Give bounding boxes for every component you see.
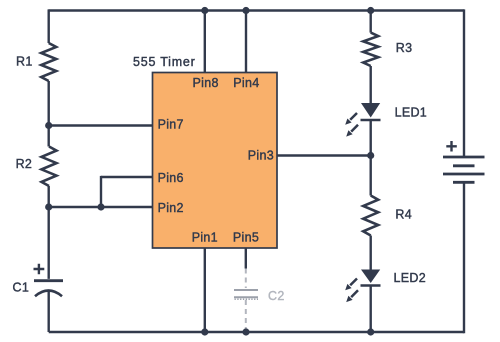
capacitor C1 curved plate bbox=[35, 291, 62, 297]
LED2 arrow 1 bbox=[345, 279, 357, 291]
battery plate short 1 bbox=[453, 164, 475, 167]
wire Pin7 bbox=[49, 124, 153, 126]
resistor R3 bbox=[363, 33, 378, 66]
wire top rail bbox=[49, 9, 465, 11]
capacitor C1 plus sign bbox=[34, 264, 45, 275]
node junction C2/bottom rail bbox=[242, 328, 249, 335]
svg-text:Pin5: Pin5 bbox=[233, 230, 259, 244]
svg-text:R3: R3 bbox=[396, 41, 413, 55]
LED2 cathode bar bbox=[361, 284, 381, 287]
wire bottom rail bbox=[49, 331, 464, 333]
svg-text:LED2: LED2 bbox=[394, 271, 426, 285]
capacitor C2 dashed lower lead bbox=[245, 300, 247, 330]
resistor R1 bbox=[41, 43, 56, 81]
wire R4 to LED2 bbox=[370, 236, 372, 270]
svg-text:Pin6: Pin6 bbox=[158, 171, 184, 185]
wire Pin2 bbox=[49, 206, 153, 208]
svg-text:C2: C2 bbox=[268, 289, 285, 303]
LED1 triangle bbox=[361, 103, 380, 118]
node junction Pin1/bottom rail bbox=[201, 328, 208, 335]
wire left rail upper (top corner to R1) bbox=[48, 9, 50, 43]
svg-text:LED1: LED1 bbox=[395, 106, 427, 120]
node junction Pin2/left rail bbox=[45, 203, 52, 210]
capacitor C2 top plate bbox=[234, 289, 258, 291]
svg-text:Pin8: Pin8 bbox=[192, 76, 218, 90]
wire top rail to R3 bbox=[370, 11, 372, 33]
capacitor C2 bottom plate serration bbox=[235, 298, 259, 300]
wire R3 to LED1 bbox=[370, 66, 372, 103]
wire Pin3 node to R4 bbox=[370, 156, 372, 196]
wire Pin1 to bottom rail bbox=[204, 248, 206, 332]
svg-text:Pin7: Pin7 bbox=[158, 117, 184, 131]
svg-text:Pin2: Pin2 bbox=[158, 201, 184, 215]
svg-text:R4: R4 bbox=[395, 208, 412, 222]
wire battery rail upper bbox=[463, 9, 465, 157]
battery plus sign bbox=[446, 141, 457, 152]
wire LED2 to bottom rail bbox=[370, 286, 372, 333]
wire LED1 to Pin3 node bbox=[370, 120, 372, 156]
LED2 arrow 2 bbox=[346, 290, 358, 302]
battery plate long 1 bbox=[443, 156, 485, 159]
wire C1 to bottom rail bbox=[48, 290, 50, 332]
battery plate short 2 bbox=[453, 181, 475, 184]
capacitor C2 bottom plate bbox=[234, 296, 258, 298]
IC 555 Timer body bbox=[153, 73, 278, 249]
wire Pin5 solid lead bbox=[245, 248, 247, 269]
wire Pin4 to top rail bbox=[245, 11, 247, 73]
LED1 arrow 1 bbox=[345, 113, 357, 125]
wire battery rail lower bbox=[463, 182, 465, 333]
wire R2 to C1 bbox=[48, 186, 50, 279]
resistor R4 bbox=[363, 196, 378, 236]
LED1 arrow 2 bbox=[346, 125, 358, 137]
wire Pin6 vertical drop bbox=[100, 176, 102, 207]
wire Pin8 to top rail bbox=[204, 11, 206, 73]
battery plate long 2 bbox=[443, 173, 485, 176]
svg-text:Pin4: Pin4 bbox=[233, 76, 259, 90]
svg-text:Pin1: Pin1 bbox=[192, 230, 218, 244]
node junction Pin3/LED column bbox=[367, 152, 374, 159]
capacitor C1 top plate bbox=[34, 279, 63, 282]
svg-text:555 Timer: 555 Timer bbox=[133, 55, 196, 69]
node junction Pin7/left rail bbox=[45, 122, 52, 129]
node junction R3/top rail bbox=[367, 7, 374, 14]
node junction LED2/bottom rail bbox=[367, 328, 374, 335]
LED1 cathode bar bbox=[361, 119, 381, 122]
svg-text:R1: R1 bbox=[16, 55, 33, 69]
LED2 triangle bbox=[361, 270, 380, 284]
node junction Pin4/top rail bbox=[242, 7, 249, 14]
wire Pin6 horizontal bbox=[101, 176, 153, 178]
svg-text:R2: R2 bbox=[16, 157, 33, 171]
node junction Pin6 drop on Pin2 wire bbox=[97, 203, 104, 210]
wire R1 to Pin7 node bbox=[48, 81, 50, 147]
node junction Pin8/top rail bbox=[201, 7, 208, 14]
resistor R2 bbox=[42, 147, 57, 187]
svg-text:C1: C1 bbox=[13, 281, 30, 295]
wire Pin3 bbox=[277, 154, 371, 156]
svg-text:Pin3: Pin3 bbox=[248, 149, 274, 163]
capacitor C2 dashed upper lead bbox=[245, 269, 247, 289]
